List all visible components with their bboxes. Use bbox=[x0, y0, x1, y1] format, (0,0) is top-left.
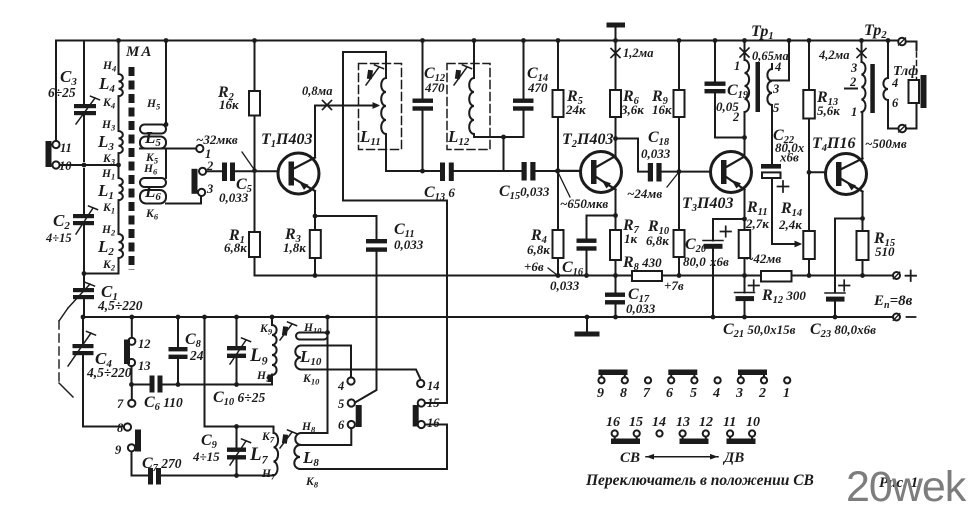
transformer Tp2 bbox=[861, 41, 863, 63]
svg-text:1,2ма: 1,2ма bbox=[623, 46, 653, 60]
wire C5 to T1 base bbox=[235, 170, 278, 172]
wire bottom plus bus bbox=[255, 257, 894, 276]
svg-text:16к: 16к bbox=[219, 97, 239, 112]
svg-text:4,2ма: 4,2ма bbox=[818, 48, 849, 62]
terminal 9 bbox=[128, 444, 135, 451]
capacitor C4 bbox=[82, 317, 84, 344]
svg-text:5: 5 bbox=[773, 101, 779, 115]
wire terminal 10 to coil tap bbox=[60, 164, 119, 166]
wire terminal 2 to C5 bbox=[206, 170, 222, 172]
svg-text:13: 13 bbox=[138, 359, 151, 373]
svg-text:11: 11 bbox=[60, 141, 72, 155]
capacitor C11 bbox=[376, 216, 378, 239]
wire L2 bottom to C1 bbox=[84, 273, 119, 275]
svg-text:11: 11 bbox=[723, 415, 736, 430]
svg-text:13: 13 bbox=[676, 415, 690, 430]
wire terminal 9 to C7 bbox=[132, 475, 149, 477]
resistor R2 bbox=[254, 41, 256, 92]
svg-text:3: 3 bbox=[850, 61, 857, 75]
resistor R5 bbox=[557, 41, 559, 91]
wire C7 to L7 bottom bbox=[161, 475, 274, 477]
core trimmer L9 bbox=[280, 324, 292, 340]
svg-text:12: 12 bbox=[699, 415, 713, 430]
wire C11 line down to switch term 5 bbox=[355, 276, 377, 403]
svg-text:20wek: 20wek bbox=[846, 463, 967, 510]
svg-text:510: 510 bbox=[875, 244, 895, 259]
wire C18 to T3 base bbox=[662, 171, 711, 173]
coil L12 bbox=[469, 41, 523, 138]
core mark H9 bbox=[268, 375, 273, 383]
svg-text:16: 16 bbox=[606, 415, 620, 430]
svg-text:3,6к: 3,6к bbox=[620, 102, 644, 117]
ferrite rod MA bbox=[129, 67, 135, 270]
wire T4 collector to Tp2 bbox=[861, 112, 863, 159]
resistor R7 bbox=[615, 216, 617, 231]
wire terminal 16 to L8 bottom bbox=[425, 425, 447, 470]
IF transformer L11 frame bbox=[343, 52, 386, 201]
phone jack top bbox=[898, 38, 906, 46]
switch bar terminals 10-11 bbox=[46, 141, 52, 167]
svg-text:4: 4 bbox=[774, 60, 781, 74]
svg-text:6: 6 bbox=[666, 386, 673, 401]
svg-text:1: 1 bbox=[783, 386, 790, 401]
svg-text:х6в: х6в bbox=[779, 150, 799, 165]
svg-text:~650мкв: ~650мкв bbox=[560, 196, 608, 211]
svg-text:9: 9 bbox=[115, 443, 122, 457]
svg-text:х6в: х6в bbox=[709, 254, 729, 269]
wire T2 collector bbox=[615, 41, 617, 157]
svg-text:2: 2 bbox=[758, 386, 766, 401]
wire emitter to C23 bbox=[835, 219, 863, 293]
svg-text:4: 4 bbox=[712, 386, 720, 401]
X mark 4,2ma bbox=[857, 49, 866, 58]
terminal 8 bbox=[124, 423, 131, 430]
pointer 650mkv bbox=[558, 171, 571, 197]
svg-text:~42мв: ~42мв bbox=[746, 251, 781, 266]
coil L6 bbox=[165, 149, 167, 179]
capacitor C5 bbox=[222, 163, 227, 182]
coil L1 bbox=[119, 153, 123, 200]
capacitor C7 bbox=[148, 468, 153, 485]
svg-text:0,033: 0,033 bbox=[641, 146, 671, 161]
switch bar terminals 2-3 bbox=[192, 169, 198, 194]
core trimmer L7 bbox=[280, 432, 292, 448]
capacitor C10 bbox=[236, 317, 238, 346]
svg-text:1к: 1к bbox=[624, 231, 638, 246]
terminal 7 bbox=[131, 385, 133, 400]
resistor R14 bbox=[803, 231, 815, 259]
svg-text:0,033: 0,033 bbox=[394, 237, 424, 252]
svg-text:+7в: +7в bbox=[664, 278, 684, 293]
terminal 10 bbox=[52, 161, 59, 168]
switch bar terminals 12-13 bbox=[124, 340, 130, 365]
wire T2 collector to C18 bbox=[616, 139, 648, 172]
svg-text:4,5÷220: 4,5÷220 bbox=[86, 365, 132, 380]
terminal plus bbox=[893, 272, 900, 279]
svg-text:14: 14 bbox=[652, 415, 666, 430]
transistor T3 bbox=[711, 152, 752, 193]
capacitor C1 bbox=[73, 288, 94, 292]
resistor R13 bbox=[808, 41, 810, 91]
svg-text:14: 14 bbox=[427, 379, 440, 393]
svg-text:Т2П403: Т2П403 bbox=[562, 131, 613, 150]
capacitor C17 bbox=[615, 276, 617, 293]
capacitor C18 bbox=[648, 163, 653, 182]
resistor R3 bbox=[314, 216, 316, 230]
wire T1 collector up bbox=[314, 106, 316, 158]
X mark 1,2ma bbox=[611, 49, 620, 58]
svg-text:0,05: 0,05 bbox=[716, 99, 739, 114]
plus C21 bbox=[749, 280, 760, 291]
svg-text:2: 2 bbox=[849, 75, 856, 89]
switch bar terminals 8-9 bbox=[135, 430, 141, 452]
terminal 11 bbox=[52, 141, 59, 148]
resistor R4 bbox=[557, 171, 559, 230]
svg-text:6÷25: 6÷25 bbox=[48, 85, 76, 100]
svg-text:1: 1 bbox=[734, 59, 740, 73]
wire T1 emitter down bbox=[314, 191, 316, 216]
terminal 15 bbox=[418, 399, 425, 406]
svg-text:Т3П403: Т3П403 bbox=[682, 195, 733, 214]
svg-text:ДВ: ДВ bbox=[722, 450, 744, 466]
transistor T2 bbox=[581, 152, 622, 193]
wire T4 emitter bbox=[862, 192, 864, 219]
switch bar terminals 5-6 bbox=[356, 405, 362, 427]
wire T4 base bbox=[809, 171, 826, 173]
capacitor C16 bbox=[586, 216, 588, 239]
svg-text:0,033: 0,033 bbox=[550, 278, 580, 293]
wire T2 emitter bbox=[615, 190, 617, 216]
svg-text:+6в: +6в bbox=[524, 259, 544, 274]
plus C23 bbox=[839, 280, 850, 291]
capacitor C3 bbox=[83, 41, 85, 105]
svg-text:Т4П16: Т4П16 bbox=[812, 135, 855, 154]
pointer +6v bbox=[548, 268, 557, 275]
svg-text:0,033: 0,033 bbox=[219, 190, 249, 205]
capacitor C6 bbox=[150, 376, 155, 393]
transistor T1 bbox=[278, 153, 319, 194]
terminal 16 bbox=[418, 421, 425, 428]
terminal 3 bbox=[198, 189, 205, 196]
capacitor C23 bbox=[825, 292, 845, 294]
coil L2 bbox=[119, 200, 124, 273]
svg-text:7: 7 bbox=[643, 386, 651, 401]
svg-text:МА: МА bbox=[125, 44, 153, 60]
svg-text:24: 24 bbox=[189, 348, 204, 363]
svg-text:6: 6 bbox=[892, 96, 899, 110]
IF transformer L12 frame bbox=[447, 64, 490, 150]
switch bar terminals 15-16 bbox=[413, 405, 419, 427]
plus C22 bbox=[778, 181, 789, 192]
band switch diagram row 1 bbox=[598, 370, 790, 384]
svg-text:1,8к: 1,8к bbox=[283, 240, 306, 255]
capacitor C21 bbox=[744, 276, 746, 293]
coil L5 bbox=[165, 41, 167, 125]
wire terminal 15 link bbox=[425, 402, 447, 404]
terminal minus bbox=[893, 314, 900, 321]
wire T3 collector to Tp1 bbox=[744, 112, 746, 157]
pointer 32mkv bbox=[242, 152, 254, 170]
svg-text:2,7к: 2,7к bbox=[745, 216, 769, 231]
wire L12 down to C15 line bbox=[503, 137, 505, 171]
svg-text:3: 3 bbox=[772, 82, 779, 96]
antenna gang dashed link bbox=[59, 308, 68, 321]
coil L7 bbox=[274, 433, 279, 476]
svg-text:15: 15 bbox=[629, 415, 643, 430]
wire C6 to L9 bottom bbox=[163, 375, 273, 385]
band switch diagram row 2 bbox=[611, 430, 756, 444]
svg-text:Еп=8в: Еп=8в bbox=[873, 293, 913, 311]
svg-text:4÷15: 4÷15 bbox=[45, 231, 72, 245]
svg-text:7: 7 bbox=[117, 397, 124, 411]
wire lower minus bus bbox=[83, 316, 893, 318]
wire terminal 13 node to C6 bbox=[132, 384, 150, 386]
svg-text:470: 470 bbox=[424, 80, 445, 95]
resistor R6 bbox=[610, 90, 621, 117]
svg-text:10: 10 bbox=[746, 415, 760, 430]
band arrow SV-DV bbox=[646, 456, 718, 458]
wire L6 K6 to terminal 3 bbox=[166, 196, 201, 203]
svg-text:~24мв: ~24мв bbox=[627, 186, 662, 201]
ground top bus bbox=[615, 28, 617, 41]
core trimmer L12 bbox=[454, 67, 467, 85]
wire emitter to C16 bbox=[587, 215, 616, 217]
svg-text:2: 2 bbox=[206, 159, 213, 173]
svg-text:16: 16 bbox=[427, 416, 440, 430]
svg-text:Переключатель в положении СВ: Переключатель в положении СВ bbox=[585, 472, 814, 489]
svg-text:2,4к: 2,4к bbox=[778, 217, 802, 232]
svg-text:~500мв: ~500мв bbox=[865, 136, 907, 151]
svg-text:12: 12 bbox=[138, 337, 151, 351]
phone capsule Tlf bbox=[909, 80, 920, 103]
resistor R11 bbox=[744, 219, 746, 230]
plus C20 bbox=[721, 226, 732, 236]
wire L5 K5 to terminal 1 bbox=[140, 148, 196, 150]
X mark 0,8ma bbox=[323, 101, 332, 110]
capacitor C9 bbox=[236, 427, 238, 448]
wire L11 bottom to C13 bbox=[386, 170, 440, 172]
wire emitter to C20 bbox=[713, 218, 745, 220]
terminal 6 bbox=[348, 421, 355, 428]
terminal 14 bbox=[417, 380, 424, 387]
svg-text:0,65ма: 0,65ма bbox=[752, 49, 789, 63]
resistor R1 bbox=[254, 171, 256, 232]
svg-text:6,8к: 6,8к bbox=[224, 240, 247, 255]
capacitor C2 bbox=[83, 169, 85, 214]
svg-text:8: 8 bbox=[117, 421, 124, 435]
coil L8 bbox=[295, 428, 351, 445]
capacitor C12 bbox=[422, 41, 424, 99]
svg-text:3: 3 bbox=[206, 182, 213, 196]
wire L11 frame to switch line bbox=[343, 201, 447, 404]
svg-text:24к: 24к bbox=[565, 102, 586, 117]
svg-text:0,8ма: 0,8ма bbox=[302, 84, 332, 98]
X mark 0,65ma bbox=[740, 48, 749, 57]
wire emitter node to C11 bbox=[315, 215, 377, 217]
capacitor C19 bbox=[714, 41, 716, 82]
wire C13 to C15 bbox=[454, 170, 522, 172]
coil L4 bbox=[119, 41, 123, 97]
terminal 2 bbox=[199, 168, 206, 175]
svg-text:0,033: 0,033 bbox=[626, 301, 656, 316]
coil L9 bbox=[272, 317, 277, 375]
svg-text:5,6к: 5,6к bbox=[817, 103, 840, 118]
wire C15 to T2 base bbox=[536, 170, 581, 172]
wire top supply bus bbox=[56, 40, 897, 42]
resistor R15 bbox=[862, 219, 864, 232]
svg-text:6: 6 bbox=[338, 418, 345, 432]
coil L10 bbox=[296, 333, 328, 340]
wire bus to L7 top bbox=[205, 317, 274, 433]
svg-text:6,8к: 6,8к bbox=[527, 242, 550, 257]
capacitor C14 bbox=[523, 41, 525, 99]
wire bus to L10/L8 column bbox=[327, 317, 329, 433]
svg-text:10: 10 bbox=[59, 159, 72, 173]
terminal 13 bbox=[128, 359, 135, 366]
svg-text:6,8к: 6,8к bbox=[646, 233, 669, 248]
svg-text:~32мкв: ~32мкв bbox=[196, 132, 238, 147]
svg-text:5: 5 bbox=[690, 386, 697, 401]
core trimmer L11 bbox=[366, 67, 379, 85]
capacitor C22 bbox=[771, 105, 773, 164]
svg-text:9: 9 bbox=[597, 386, 604, 401]
svg-text:470: 470 bbox=[527, 80, 548, 95]
transformer Tp1 bbox=[744, 41, 746, 61]
coil L11 bbox=[381, 78, 386, 171]
resistor R9 bbox=[678, 41, 680, 91]
svg-text:4÷15: 4÷15 bbox=[192, 449, 220, 464]
wire terminal 11 drop bbox=[55, 41, 57, 141]
coil L3 bbox=[119, 96, 123, 153]
svg-text:Т1П403: Т1П403 bbox=[261, 131, 312, 150]
pointer 24mv bbox=[667, 173, 679, 188]
capacitor C20 bbox=[712, 219, 714, 241]
resistor R10 bbox=[678, 172, 680, 230]
svg-text:4: 4 bbox=[891, 76, 898, 90]
svg-text:16к: 16к bbox=[652, 102, 672, 117]
wire T3 emitter bbox=[744, 190, 746, 220]
svg-text:80,0: 80,0 bbox=[683, 254, 706, 269]
svg-text:5: 5 bbox=[338, 397, 344, 411]
svg-text:8: 8 bbox=[620, 386, 627, 401]
ground bbox=[586, 317, 588, 332]
svg-text:1: 1 bbox=[851, 105, 857, 119]
svg-text:4: 4 bbox=[337, 379, 344, 393]
capacitor C13 bbox=[440, 163, 445, 182]
transistor T4 bbox=[826, 154, 867, 195]
resistor R8 bbox=[632, 271, 662, 281]
svg-text:3: 3 bbox=[735, 386, 743, 401]
wire R5 node to T2 base bbox=[558, 170, 581, 172]
svg-text:СВ: СВ bbox=[620, 450, 640, 466]
wire 0,8ma line to L11 bbox=[315, 105, 373, 107]
terminal 4 bbox=[350, 346, 352, 378]
terminal 12 bbox=[131, 317, 133, 338]
svg-text:4,5÷220: 4,5÷220 bbox=[97, 298, 143, 313]
resistor R12 bbox=[761, 271, 792, 282]
phone jack bottom bbox=[898, 125, 906, 133]
terminal 1 bbox=[196, 145, 203, 152]
terminal 5 bbox=[348, 399, 355, 406]
svg-text:15: 15 bbox=[427, 396, 440, 410]
capacitor C15 bbox=[522, 162, 527, 181]
capacitor C8 bbox=[177, 317, 179, 347]
